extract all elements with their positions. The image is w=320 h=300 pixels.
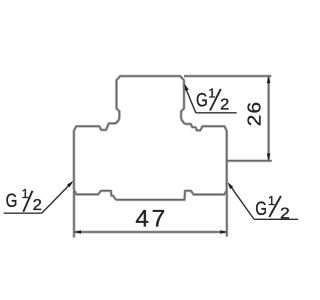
label G1/2 top-right: arrowhead [184,84,188,91]
label G1/2 bottom-left: arrowhead [67,181,73,187]
arrowhead 47 left [74,230,81,234]
svg-text:1: 1 [22,186,29,201]
arrowhead 47 right [220,230,227,234]
label G1/2 bottom-right: underline [254,218,298,220]
label G1/2 bottom-left: underline [4,212,42,214]
arrowhead 26 top [267,76,271,83]
svg-text:G: G [6,191,18,212]
svg-text:2: 2 [220,97,229,114]
svg-text:G: G [196,90,208,111]
label G1/2 bottom-right: fraction slash [269,196,281,217]
svg-text:1: 1 [268,193,275,208]
arrowhead 26 bottom [267,154,271,161]
label G1/2 bottom-left: leader line [42,183,72,214]
svg-text:2: 2 [33,197,42,214]
soft pass: wide light stroke [74,76,272,237]
label G1/2 bottom-right: arrowhead [228,182,234,189]
svg-text:6: 6 [244,102,265,114]
svg-text:2: 2 [280,206,290,223]
svg-text:47: 47 [135,205,167,232]
label G1/2 top-right: leader line [186,90,196,113]
label G1/2 top-right: fraction slash [210,89,221,111]
svg-text:1: 1 [208,85,215,100]
core pass: narrow dark stroke [74,76,272,237]
label G1/2 top-right: underline [196,112,237,114]
label G1/2 bottom-right: leader line [229,184,254,219]
svg-text:G: G [255,199,267,220]
svg-text:2: 2 [244,115,265,127]
label G1/2 bottom-left: fraction slash [23,191,32,212]
